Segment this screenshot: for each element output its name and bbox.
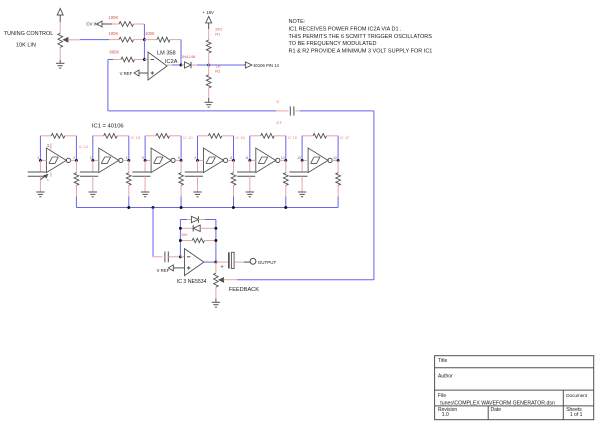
svg-text:R2: R2 bbox=[215, 68, 221, 73]
svg-text:100K: 100K bbox=[109, 15, 119, 20]
svg-text:R1 & R2 PROVIDE A MINIMUM 3 VO: R1 & R2 PROVIDE A MINIMUM 3 VOLT SUPPLY … bbox=[289, 49, 433, 55]
svg-text:CV IN: CV IN bbox=[86, 21, 97, 26]
svg-text:Author: Author bbox=[438, 373, 453, 379]
svg-text:IC1 RECEIVES POWER FROM IC2A V: IC1 RECEIVES POWER FROM IC2A VIA D1 . bbox=[289, 26, 403, 32]
svg-text:7: 7 bbox=[47, 179, 51, 181]
svg-text:--: -- bbox=[79, 150, 81, 154]
svg-text:100K: 100K bbox=[109, 31, 119, 36]
svg-text:LM 358: LM 358 bbox=[157, 50, 176, 56]
svg-text:TO BE FREQUENCY MODULATED: TO BE FREQUENCY MODULATED bbox=[289, 41, 377, 47]
svg-text:V REF: V REF bbox=[120, 71, 133, 76]
svg-text:IC 1F: IC 1F bbox=[340, 135, 350, 140]
svg-text:5: 5 bbox=[142, 156, 144, 160]
svg-text:4: 4 bbox=[126, 156, 128, 160]
svg-text:C7: C7 bbox=[277, 120, 283, 125]
svg-text:IC 1A: IC 1A bbox=[79, 144, 89, 149]
svg-text:1.0: 1.0 bbox=[442, 412, 449, 418]
svg-text:IC1 = 40106: IC1 = 40106 bbox=[92, 124, 124, 130]
svg-text:1 of 1: 1 of 1 bbox=[570, 412, 583, 418]
svg-text:680K: 680K bbox=[110, 50, 120, 55]
svg-text:10K: 10K bbox=[181, 233, 188, 237]
svg-text:9: 9 bbox=[194, 156, 196, 160]
svg-text:2K2: 2K2 bbox=[215, 26, 223, 31]
svg-text:IC 1E: IC 1E bbox=[288, 135, 298, 140]
svg-text:100K: 100K bbox=[145, 31, 155, 36]
svg-text:2: 2 bbox=[73, 156, 75, 160]
svg-text:Title: Title bbox=[438, 358, 447, 364]
svg-text:tunes\COMPLEX WAVEFORM GENERAT: tunes\COMPLEX WAVEFORM GENERATOR.dsn bbox=[440, 400, 555, 406]
svg-text:IC2A: IC2A bbox=[165, 59, 178, 65]
svg-text:+ 18V: + 18V bbox=[203, 10, 214, 15]
svg-text:IC 1D: IC 1D bbox=[235, 135, 245, 140]
svg-text:10: 10 bbox=[281, 156, 285, 160]
svg-text:Document: Document bbox=[566, 393, 588, 398]
svg-text:14: 14 bbox=[46, 144, 50, 148]
svg-text:FEEDBACK: FEEDBACK bbox=[229, 287, 259, 293]
svg-text:12: 12 bbox=[333, 156, 337, 160]
svg-text:1N4148: 1N4148 bbox=[181, 54, 196, 59]
svg-text:THIS PERMITS THE 6 SCMITT TRI: THIS PERMITS THE 6 SCMITT TRIGGER OSCILL… bbox=[289, 34, 433, 40]
svg-text:IC 1B: IC 1B bbox=[131, 135, 141, 140]
svg-text:+: + bbox=[220, 263, 224, 270]
svg-text:R1: R1 bbox=[215, 32, 221, 37]
svg-text:TUNING CONTROL: TUNING CONTROL bbox=[4, 31, 54, 37]
svg-text:1: 1 bbox=[37, 156, 39, 160]
svg-text:OUTPUT: OUTPUT bbox=[258, 260, 277, 265]
svg-text:6: 6 bbox=[178, 156, 180, 160]
svg-text:3: 3 bbox=[90, 156, 92, 160]
svg-text:File: File bbox=[438, 393, 446, 399]
svg-text:C: C bbox=[277, 99, 280, 104]
svg-text:40106 PIN 14: 40106 PIN 14 bbox=[253, 63, 279, 68]
svg-text:IC 3 NE5534: IC 3 NE5534 bbox=[177, 279, 207, 285]
svg-text:8: 8 bbox=[230, 156, 232, 160]
svg-text:13: 13 bbox=[297, 156, 301, 160]
svg-text:NOTE:: NOTE: bbox=[289, 19, 306, 25]
svg-text:IC 1C: IC 1C bbox=[183, 135, 193, 140]
svg-text:Date: Date bbox=[491, 407, 502, 413]
svg-text:11: 11 bbox=[245, 156, 249, 160]
svg-text:10K LIN: 10K LIN bbox=[16, 43, 36, 49]
svg-text:V REF: V REF bbox=[157, 268, 170, 273]
